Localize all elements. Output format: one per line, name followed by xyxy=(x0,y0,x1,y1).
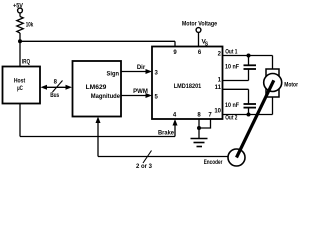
Out 2 wire from pin 10 xyxy=(223,114,273,116)
Brake wire horizontal xyxy=(20,136,175,138)
svg-text:Host: Host xyxy=(14,78,26,85)
wire capacitor C1 to pin 1 xyxy=(248,69,250,81)
svg-text:LM629: LM629 xyxy=(86,84,107,91)
Brake wire up to pin 4 xyxy=(174,123,176,137)
svg-text:Sign: Sign xyxy=(107,71,120,78)
pin 7 wire to ground xyxy=(199,119,211,128)
Out 1 wire from pin 2 xyxy=(223,55,273,57)
LMD18201 box U2 xyxy=(152,47,223,120)
pin 11 wire xyxy=(223,88,249,90)
svg-text:Dir: Dir xyxy=(137,65,146,71)
wire pin 11 to capacitor C2 xyxy=(248,89,250,104)
bus width slash xyxy=(53,81,63,93)
svg-text:10: 10 xyxy=(214,109,221,115)
Dir wire LM629 Sign to LMD18201 pin 3 xyxy=(121,71,148,73)
svg-text:Motor Voltage: Motor Voltage xyxy=(182,21,218,28)
wire node to LMD18201 pin 9 (horizontal) xyxy=(20,40,175,42)
wire feedback up to LM629 bottom xyxy=(97,120,99,157)
junction dot Out2/cap xyxy=(247,113,251,117)
motor-encoder shaft xyxy=(237,80,274,157)
wire Out1 node to capacitor C1 xyxy=(248,56,250,66)
svg-text:LMD18201: LMD18201 xyxy=(174,83,202,90)
Host uC box xyxy=(3,67,41,104)
PWM wire LM629 Magnitude to LMD18201 pin 5 xyxy=(121,95,148,97)
svg-text:Magnitude: Magnitude xyxy=(91,94,121,100)
motor M1 circle xyxy=(264,74,282,92)
svg-text:µC: µC xyxy=(17,85,23,92)
node junction dot at resistor/IRQ xyxy=(18,39,22,43)
encoder bus slash xyxy=(143,151,152,164)
motor M1 body xyxy=(266,69,279,97)
svg-text:Encoder: Encoder xyxy=(204,160,223,166)
capacitor C2 10nF plates xyxy=(244,103,257,105)
wire Motor Voltage to pin 6 xyxy=(198,33,200,47)
capacitor C1 10nF plates xyxy=(244,64,257,66)
wire down into pin 9 xyxy=(174,41,176,46)
svg-text:PWM: PWM xyxy=(133,89,148,95)
svg-text:11: 11 xyxy=(215,85,222,91)
wire Out1 to motor top xyxy=(272,56,274,70)
wire capacitor C2 to Out2 node xyxy=(248,108,250,115)
junction dot Out1/cap xyxy=(247,54,251,58)
wire from +5V terminal to resistor xyxy=(19,13,21,17)
svg-text:IRQ: IRQ xyxy=(22,60,31,66)
+5V terminal circle xyxy=(18,8,23,13)
wire resistor to node xyxy=(19,33,21,41)
svg-text:Motor: Motor xyxy=(284,83,298,89)
resistor R 10k xyxy=(17,17,23,34)
svg-text:Brake: Brake xyxy=(158,131,175,137)
Motor Voltage terminal circle xyxy=(196,28,201,33)
svg-text:Out 2: Out 2 xyxy=(225,116,238,122)
wire motor bottom to Out2 xyxy=(272,97,274,115)
svg-text:10 nF: 10 nF xyxy=(225,103,239,109)
junction dot pins 7/8 xyxy=(197,126,201,130)
encoder circle xyxy=(228,149,245,166)
ground symbol xyxy=(191,138,208,140)
wire IRQ down to Host uC xyxy=(19,41,21,66)
Brake wire from Host down xyxy=(19,104,21,137)
svg-text:10k: 10k xyxy=(26,22,34,29)
svg-text:10 nF: 10 nF xyxy=(225,64,239,70)
bus double arrow between Host and LM629 xyxy=(44,86,69,88)
svg-text:Out 1: Out 1 xyxy=(225,50,238,56)
pin 1 wire xyxy=(223,80,249,82)
LM629 box U1 xyxy=(73,61,122,117)
svg-text:Bus: Bus xyxy=(50,93,60,99)
svg-text:2 or 3: 2 or 3 xyxy=(136,164,153,169)
encoder feedback wire to LM629 xyxy=(98,156,228,158)
pin 8 wire to ground xyxy=(198,119,200,139)
